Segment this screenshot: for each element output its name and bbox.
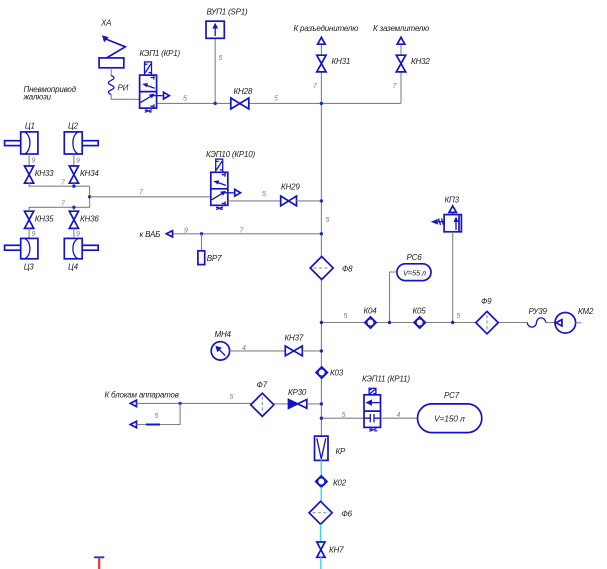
svg-text:5: 5 [219, 55, 223, 62]
arrow 1 [130, 400, 136, 406]
svg-text:5: 5 [457, 313, 461, 320]
reducer KR30 [289, 400, 307, 409]
wire cyan F6 to KN7 [320, 524, 322, 542]
arrow to disconnector [318, 37, 326, 44]
check valve K03 [316, 367, 327, 378]
svg-text:ВР7: ВР7 [207, 254, 222, 263]
svg-text:КМ2: КМ2 [578, 307, 594, 316]
node: junction center line/right branch [320, 321, 323, 324]
svg-text:V=55 л: V=55 л [403, 269, 427, 278]
svg-text:РС6: РС6 [407, 253, 423, 262]
svg-text:КН33: КН33 [35, 169, 54, 178]
svg-text:КР: КР [336, 447, 347, 456]
valve KN31 [317, 55, 326, 72]
wire cyan below KN7 [320, 557, 322, 569]
node: junction KEP11 branch/center line [320, 417, 323, 420]
wire lower pair join [29, 197, 90, 211]
valve KEP11 (KR11) [364, 388, 381, 431]
wire F7 to KR30 [274, 403, 289, 405]
check valve K02 [316, 476, 327, 487]
svg-text:Ц2: Ц2 [68, 121, 79, 130]
hose RU39 [527, 318, 545, 327]
svg-text:5: 5 [262, 191, 266, 198]
svg-text:5: 5 [230, 394, 234, 401]
node: junction arrow2 riser [178, 402, 181, 405]
svg-text:9: 9 [184, 228, 188, 235]
reservoir RS7 [418, 404, 482, 433]
node: junction KR30 branch/center line [320, 402, 323, 405]
VUP1 box [206, 21, 224, 38]
svg-text:РУ39: РУ39 [529, 307, 548, 316]
svg-text:Ц1: Ц1 [25, 121, 35, 130]
svg-text:ХА: ХА [100, 19, 111, 28]
valve KN34 [69, 166, 78, 183]
spring RI [108, 76, 114, 95]
svg-text:КН29: КН29 [281, 183, 300, 192]
wire k VAB line [167, 233, 321, 235]
wire KEP11 to RS7 [381, 417, 418, 419]
svg-text:Ф7: Ф7 [257, 381, 268, 390]
cylinder C2 [64, 132, 98, 154]
wire arrow2 up [137, 403, 181, 424]
svg-text:Ц4: Ц4 [68, 263, 79, 272]
wire: center vertical line [320, 72, 322, 436]
valve KN28 [231, 98, 249, 109]
wire cyan K02 to F6 [320, 487, 322, 501]
svg-text:К03: К03 [330, 369, 344, 378]
filter F8 [310, 257, 333, 280]
wire C1-KN33 [28, 154, 30, 166]
svg-text:5: 5 [155, 413, 159, 420]
svg-text:КН37: КН37 [285, 334, 304, 343]
svg-text:К заземлителю: К заземлителю [373, 24, 429, 33]
wire KP3 down [452, 232, 454, 323]
cylinder C3 [5, 238, 38, 258]
check valve K04 [365, 317, 376, 328]
svg-text:КН28: КН28 [234, 87, 253, 96]
svg-text:5: 5 [183, 96, 187, 103]
filter F7 [251, 393, 274, 416]
svg-text:К04: К04 [364, 307, 378, 316]
svg-text:КН34: КН34 [80, 169, 99, 178]
wire C2-KN34 [73, 154, 75, 166]
node: junction KN37 branch/center line [320, 349, 323, 352]
svg-text:Ф6: Ф6 [342, 510, 353, 519]
svg-text:КР30: КР30 [288, 388, 307, 397]
node: junction VR7/VAB line [200, 232, 203, 235]
node: junction KN29/center line [320, 199, 323, 202]
node: junction KN31/bus [320, 102, 323, 105]
wire: VUP1 stem [214, 38, 216, 103]
svg-text:9: 9 [32, 158, 36, 165]
svg-text:ВУП1 (SP1): ВУП1 (SP1) [207, 8, 248, 17]
svg-text:К02: К02 [333, 479, 347, 488]
valve KN32 [396, 55, 405, 72]
arrow k VAB [166, 231, 172, 237]
wire KN37 to center [302, 350, 321, 352]
svg-text:К05: К05 [413, 307, 427, 316]
valve KN29 [281, 196, 297, 206]
cylinder C1 [5, 132, 38, 154]
wire KR30 to center [307, 403, 322, 405]
svg-text:РС7: РС7 [444, 391, 460, 400]
wire cyan KR to K02 [320, 460, 322, 477]
filter F9 [476, 311, 498, 333]
filter F6 [309, 501, 332, 524]
svg-text:КП3: КП3 [445, 196, 460, 205]
svg-text:КЭП1 (КР1): КЭП1 (КР1) [140, 49, 181, 58]
wire main right branch y=322.5 [321, 322, 555, 324]
svg-text:9: 9 [76, 158, 80, 165]
svg-text:КН31: КН31 [332, 57, 351, 66]
node: junction KN36/lower pair line [72, 206, 75, 209]
T mark [94, 557, 104, 569]
wire C3-KN35 [28, 228, 30, 238]
valve KN36 [69, 211, 78, 228]
arrow to grounder [397, 37, 405, 44]
svg-text:5: 5 [274, 96, 278, 103]
svg-text:КН36: КН36 [80, 215, 99, 224]
svg-text:КН32: КН32 [411, 57, 430, 66]
wire: KN32 stem up to arrow [400, 44, 402, 55]
svg-text:Ф8: Ф8 [342, 265, 353, 274]
svg-text:КН35: КН35 [35, 215, 54, 224]
wire upper pair join [29, 183, 90, 197]
cylinder C4 [64, 238, 98, 258]
svg-text:Ф9: Ф9 [481, 297, 492, 306]
svg-text:5: 5 [344, 313, 348, 320]
wire: KN31 stem up to arrow [320, 44, 322, 55]
check valve K05 [414, 317, 425, 328]
valve KEP1 (KR1) [140, 62, 170, 112]
wire to KEP10 [90, 196, 211, 198]
svg-text:КЭП10 (КР10): КЭП10 (КР10) [206, 150, 256, 159]
wire RS6 down [390, 272, 397, 323]
svg-text:9: 9 [76, 231, 80, 238]
svg-text:жалюзи: жалюзи [23, 93, 52, 102]
valve KP3 [431, 206, 462, 232]
node: junction RS6 drop [388, 321, 391, 324]
wire: XA to spring [110, 68, 112, 76]
svg-text:К разъединителю: К разъединителю [294, 24, 359, 33]
wire to F7 [137, 402, 252, 404]
svg-text:РИ: РИ [118, 84, 129, 93]
sensor VR7 [198, 234, 205, 265]
reservoir RS6 [397, 264, 431, 281]
svg-text:4: 4 [397, 412, 401, 419]
wire tick [146, 424, 160, 426]
svg-text:КЭП11 (КР11): КЭП11 (КР11) [362, 375, 410, 384]
node: junction KP3 drop [451, 321, 454, 324]
wire: KN32 drop and corner [400, 72, 402, 103]
valve KN7 [317, 542, 325, 557]
svg-text:КН7: КН7 [329, 546, 344, 555]
svg-text:V=150 л: V=150 л [434, 414, 465, 424]
gauge MN4 [211, 342, 229, 360]
XA shutter symbol [99, 35, 125, 68]
valve KN35 [25, 211, 34, 228]
node: junction VUP1/bus [214, 102, 217, 105]
svg-text:К блокам аппаратов: К блокам аппаратов [105, 391, 179, 400]
svg-text:9: 9 [32, 231, 36, 238]
wire KEP10 to KN29 [228, 200, 281, 202]
wire C4-KN36 [73, 228, 75, 238]
wire: spring to KEP1 [111, 95, 139, 100]
svg-text:МН4: МН4 [215, 330, 232, 339]
svg-text:к ВАБ: к ВАБ [140, 230, 161, 239]
svg-text:Ц3: Ц3 [24, 263, 35, 272]
svg-text:5: 5 [326, 217, 330, 224]
wire: main top bus y=103.5 [157, 102, 402, 104]
valve KN37 [285, 346, 302, 356]
wire MN4 to KN37 [230, 350, 286, 352]
valve KR [315, 436, 329, 460]
svg-text:4: 4 [242, 345, 246, 352]
node: junction VAB line/center line [320, 232, 323, 235]
valve KEP10 (KR10) [211, 159, 241, 209]
wire KN29 to center [297, 200, 322, 202]
valve KN33 [25, 166, 34, 183]
svg-text:5: 5 [342, 412, 346, 419]
wire center to KEP11 [321, 417, 364, 419]
node: junction pair lines merge [88, 195, 91, 198]
node: junction KN34/upper pair line [72, 185, 75, 188]
compressor KM2 [555, 313, 582, 334]
arrow 2 [130, 421, 136, 427]
